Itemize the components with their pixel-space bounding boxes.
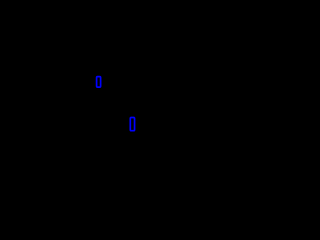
atom N1 (upper label, blue O-shaped glyph) [97, 77, 101, 88]
atom N2 (lower label, blue O-shaped glyph) [130, 118, 134, 131]
molecule structure: bonds are black on black background (invisible); only heteroatom labels show [0, 0, 200, 200]
